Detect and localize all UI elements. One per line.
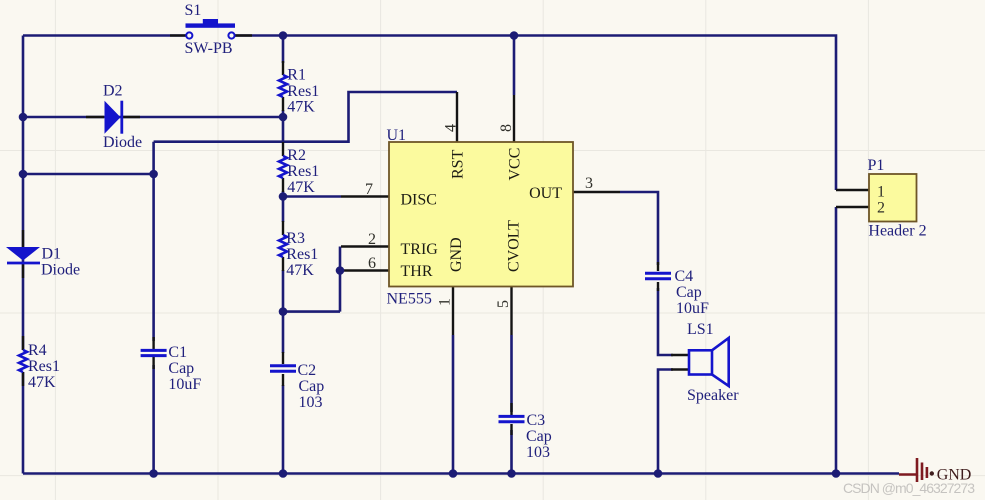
wire VCC drop [513, 36, 516, 96]
capacitor C2 [270, 366, 296, 371]
op-amp U1 NE555 body [389, 142, 573, 287]
speaker LS1 [689, 338, 729, 386]
svg-text:Header 2: Header 2 [868, 223, 926, 240]
svg-text:103: 103 [526, 444, 550, 461]
wire speaker bottom pin to bottom rail [658, 370, 673, 474]
pin U1 pin6 THR [341, 269, 389, 271]
node bottom rail / GND pin [449, 469, 458, 478]
wire P1 pin 2 down to bottom rail [835, 207, 838, 474]
wire C3 to bottom rail [510, 430, 513, 474]
node bottom rail / P1 [832, 469, 841, 478]
svg-text:7: 7 [365, 181, 373, 198]
svg-text:Cap: Cap [299, 378, 325, 395]
svg-text:NE555: NE555 [387, 291, 432, 308]
pin U1 pin5 CVOLT [510, 287, 512, 335]
svg-text:Cap: Cap [526, 428, 552, 445]
switch S1 [186, 19, 236, 39]
svg-text:Diode: Diode [103, 134, 142, 151]
pin U1 pin2 TRIG [341, 245, 389, 247]
svg-text:U1: U1 [387, 127, 407, 144]
node R3 bottom [279, 307, 288, 316]
wire R3 bottom row [283, 310, 340, 313]
pin U1 pin1 GND [452, 287, 454, 335]
node top rail / R1 [279, 31, 288, 40]
pin R2 stubs [282, 142, 284, 192]
wire TRIG THR vertical [339, 247, 342, 312]
svg-text:5: 5 [495, 300, 512, 308]
svg-text:3: 3 [585, 175, 593, 192]
pin D2 right stub [122, 116, 140, 118]
svg-text:Res1: Res1 [286, 246, 318, 263]
svg-text:Res1: Res1 [287, 163, 319, 180]
wire 555 GND pin to bottom rail [452, 335, 455, 474]
node bottom rail / C3 [507, 469, 516, 478]
svg-text:VCC: VCC [507, 148, 524, 181]
svg-text:1: 1 [437, 298, 454, 306]
wire top rail S1 to right corner, down to P1 pin 1 [235, 36, 836, 191]
svg-text:Cap: Cap [168, 360, 194, 377]
resistor R4 [19, 350, 27, 372]
resistor R2 [279, 156, 287, 178]
svg-text:2: 2 [368, 231, 376, 248]
wire resistor column R1 R2 R3 [282, 36, 285, 474]
pin R1 stubs [282, 61, 284, 111]
wire bottom rail [23, 472, 899, 475]
pin U1 pin4 RST [456, 92, 458, 142]
pin D1 bottom stub [22, 264, 24, 278]
svg-text:Speaker: Speaker [687, 387, 739, 404]
capacitor C4 [645, 273, 671, 279]
svg-text:P1: P1 [868, 157, 885, 174]
svg-text:SW-PB: SW-PB [185, 40, 233, 57]
pin U1 pin7 DISC [341, 195, 389, 197]
capacitor C3 [499, 416, 525, 421]
wire OUT to C4 [620, 192, 658, 265]
wire CVOLT to C3 [510, 335, 513, 412]
node R2 bottom / DISC [279, 192, 288, 201]
pin D1 top stub [22, 230, 24, 247]
svg-text:CVOLT: CVOLT [506, 220, 523, 272]
pin S1 left stub [170, 34, 186, 36]
svg-text:LS1: LS1 [687, 321, 714, 338]
pin C2 stubs [282, 352, 284, 386]
svg-text:10uF: 10uF [676, 300, 709, 317]
pin S1 right stub [235, 34, 252, 36]
resistor R1 [279, 75, 287, 97]
svg-text:D1: D1 [42, 246, 62, 263]
svg-text:R3: R3 [286, 230, 305, 247]
svg-text:8: 8 [498, 124, 515, 132]
wire DISC row [283, 195, 341, 198]
svg-text:2: 2 [877, 200, 885, 217]
svg-text:4: 4 [443, 124, 460, 132]
node R1 bottom / D2 row [279, 113, 288, 122]
node top rail / VCC [510, 31, 519, 40]
node left column / C1 row [19, 170, 28, 179]
svg-text:GND: GND [448, 237, 465, 272]
pin P1 pin1 stub [836, 189, 869, 191]
node C1 column / row [149, 170, 158, 179]
node THR junction [336, 266, 345, 275]
svg-text:DISC: DISC [401, 192, 437, 209]
wire D2 row [23, 116, 283, 119]
svg-text:1: 1 [877, 184, 885, 201]
ground GND power port [899, 458, 927, 482]
pin C1 stubs [152, 337, 154, 369]
wire C1 column [152, 142, 155, 474]
wire C4 to speaker top pin [658, 288, 673, 355]
pin U1 pin3 OUT [573, 191, 620, 193]
node bottom rail / C2 [279, 469, 288, 478]
svg-text:C2: C2 [298, 362, 317, 379]
capacitor C1 [141, 350, 167, 355]
pin R3 stubs [282, 221, 284, 271]
wire top rail left of S1 [23, 34, 186, 37]
svg-text:R2: R2 [287, 147, 306, 164]
svg-text:TRIG: TRIG [401, 241, 439, 258]
svg-text:Diode: Diode [41, 262, 80, 279]
svg-text:S1: S1 [185, 2, 202, 19]
resistor R3 [279, 235, 287, 257]
svg-text:Res1: Res1 [28, 358, 60, 375]
pin P1 pin2 stub [836, 206, 869, 208]
svg-text:47K: 47K [287, 99, 315, 116]
node left column / D2 row [19, 113, 28, 122]
svg-text:THR: THR [401, 263, 433, 280]
svg-text:C4: C4 [675, 268, 694, 285]
svg-text:CSDN @m0_46327273: CSDN @m0_46327273 [843, 480, 975, 496]
pin LS1 stubs [671, 355, 689, 370]
pin C3 stubs [510, 403, 512, 435]
svg-text:C3: C3 [527, 412, 546, 429]
diode D2 [105, 101, 122, 134]
svg-text:6: 6 [368, 255, 376, 272]
svg-text:D2: D2 [103, 83, 123, 100]
pin U1 pin8 VCC [513, 95, 515, 142]
svg-text:Cap: Cap [676, 284, 702, 301]
wire row to C1 [23, 173, 154, 176]
svg-text:C1: C1 [168, 344, 187, 361]
pin C4 stubs [657, 262, 659, 291]
wire left column [22, 36, 25, 474]
svg-text:OUT: OUT [529, 185, 562, 202]
svg-text:R4: R4 [28, 342, 47, 359]
pin D2 left stub [86, 116, 104, 118]
svg-text:47K: 47K [28, 374, 56, 391]
svg-text:47K: 47K [286, 262, 314, 279]
wire RST net [154, 92, 457, 142]
node bottom rail / speaker [654, 469, 663, 478]
svg-text:RST: RST [450, 149, 467, 179]
diode D1 [6, 247, 40, 263]
svg-text:R1: R1 [287, 67, 306, 84]
connector P1 Header 2 body [869, 174, 917, 222]
pin R4 stubs [22, 336, 24, 386]
svg-text:10uF: 10uF [168, 376, 201, 393]
node bottom rail / C1 [149, 469, 158, 478]
svg-text:Res1: Res1 [287, 83, 319, 100]
ground GND dot [930, 471, 934, 475]
svg-text:47K: 47K [287, 179, 315, 196]
svg-text:103: 103 [299, 394, 323, 411]
